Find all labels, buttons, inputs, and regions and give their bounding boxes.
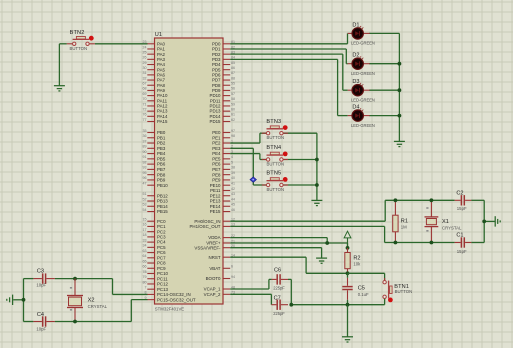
U1 pin PE5 (pin 4)	[212, 155, 233, 161]
svg-text:PE10: PE10	[210, 183, 221, 188]
svg-text:86: 86	[231, 66, 235, 70]
svg-text:PE1: PE1	[212, 135, 221, 140]
svg-text:PE14: PE14	[210, 204, 221, 209]
svg-text:PA15: PA15	[157, 119, 168, 124]
svg-text:96: 96	[143, 176, 147, 180]
wire C5 to bottom rail	[347, 300, 349, 305]
svg-text:33: 33	[143, 238, 147, 242]
U1 pin PC13 (pin 7)	[145, 285, 169, 291]
svg-text:43: 43	[231, 192, 235, 196]
svg-text:VCAP_2: VCAP_2	[204, 292, 221, 297]
svg-text:58: 58	[231, 97, 235, 101]
svg-text:76: 76	[143, 113, 147, 117]
svg-text:62: 62	[231, 118, 235, 122]
U1 pin PC0 (pin 15)	[143, 218, 167, 224]
svg-text:51: 51	[143, 192, 147, 196]
U1 pin PD1 (pin 82)	[212, 45, 235, 51]
svg-text:PE3: PE3	[212, 146, 221, 151]
svg-text:25: 25	[143, 50, 147, 54]
svg-text:PB1: PB1	[157, 135, 166, 140]
U1 pin PB4 (pin 90)	[143, 150, 166, 156]
U1 pin PH1/OSC_OUT (pin 13)	[190, 223, 236, 229]
U1 pin PB6 (pin 92)	[143, 160, 166, 166]
svg-text:C7: C7	[274, 295, 281, 301]
svg-text:55: 55	[231, 82, 235, 86]
U1 pin PC1 (pin 16)	[143, 223, 167, 229]
wire U1 PE4 to BTN4	[230, 154, 266, 160]
U1 pin PB5 (pin 91)	[143, 155, 166, 161]
U1 pin PA14 (pin 76)	[143, 113, 168, 119]
U1 pin PC5 (pin 34)	[143, 244, 167, 250]
svg-text:35: 35	[143, 129, 147, 133]
svg-text:80: 80	[143, 280, 147, 284]
U1 pin PC8 (pin 65)	[143, 259, 167, 265]
wire U1 PD1 to D2	[230, 49, 348, 64]
junction X2 bottom	[73, 320, 77, 324]
push button BTN2	[67, 36, 95, 46]
svg-text:BUTTON: BUTTON	[267, 135, 285, 140]
svg-text:56: 56	[231, 87, 235, 91]
svg-text:68: 68	[143, 87, 147, 91]
U1 pin PB0 (pin 35)	[143, 129, 166, 135]
U1 pin PE15 (pin 46)	[210, 208, 235, 214]
U1 pin PA13 (pin 72)	[143, 107, 168, 113]
wire R2 node to C5	[347, 273, 349, 278]
svg-text:D1: D1	[352, 22, 359, 28]
svg-text:C2: C2	[456, 190, 463, 196]
svg-text:PE2: PE2	[212, 141, 221, 146]
svg-text:D2: D2	[352, 53, 359, 59]
svg-text:PE15: PE15	[210, 209, 221, 214]
svg-text:26: 26	[143, 56, 147, 60]
junction NRST node	[346, 271, 350, 275]
svg-text:LED-GREEN: LED-GREEN	[351, 71, 375, 76]
svg-text:PE0: PE0	[212, 130, 221, 135]
svg-text:PB5: PB5	[157, 156, 166, 161]
svg-text:X1: X1	[442, 219, 449, 225]
U1 pin PE14 (pin 45)	[210, 203, 235, 209]
U1 pin PE10 (pin 41)	[210, 182, 235, 188]
svg-text:C6: C6	[274, 267, 281, 273]
U1 pin PA3 (pin 26)	[143, 56, 166, 62]
junction C7 right rail	[289, 303, 293, 307]
svg-text:PB7: PB7	[157, 167, 166, 172]
U1 pin PA0 (pin 23)	[143, 40, 166, 46]
wire bottom rail	[291, 304, 384, 306]
junction R1 bottom	[394, 241, 398, 245]
svg-text:32: 32	[143, 76, 147, 80]
junction at D2 bus	[398, 62, 402, 66]
svg-text:PB4: PB4	[157, 151, 166, 156]
junction at D4 bus	[398, 114, 402, 118]
U1 pin PC3 (pin 18)	[143, 233, 167, 239]
wire U1 OSC_IN to top rail	[230, 200, 385, 221]
svg-text:PB8: PB8	[157, 172, 166, 177]
svg-text:57: 57	[231, 92, 235, 96]
svg-text:10k: 10k	[353, 262, 361, 267]
wire LED cathode bus	[398, 33, 400, 141]
svg-text:CRYSTAL: CRYSTAL	[88, 304, 108, 309]
LED D1 (LED-GREEN)	[348, 26, 370, 39]
U1 pin PE6 (pin 5)	[212, 160, 233, 166]
wire BTN4 to button bus	[283, 159, 317, 161]
U1 pin PC2 (pin 17)	[143, 228, 167, 234]
svg-text:87: 87	[231, 71, 235, 75]
svg-text:45: 45	[231, 203, 235, 207]
svg-text:97: 97	[231, 129, 235, 133]
svg-text:41: 41	[231, 182, 235, 186]
svg-text:BOOT0: BOOT0	[206, 276, 221, 281]
junction at D3 bus	[398, 88, 402, 92]
svg-text:24: 24	[143, 45, 147, 49]
U1 pin PB12 (pin 51)	[143, 192, 169, 198]
U1 pin PB8 (pin 95)	[143, 171, 166, 177]
LED D4 (LED-GREEN)	[348, 108, 370, 121]
wire C3 to X2 top	[55, 278, 113, 280]
svg-text:NRST: NRST	[209, 255, 221, 260]
ground for BTN2	[54, 86, 65, 91]
svg-text:LED-GREEN: LED-GREEN	[351, 41, 375, 46]
U1 pin PB14 (pin 53)	[143, 203, 169, 209]
wire C2 to right vertical	[471, 199, 484, 201]
wire BTN2 ground vertical	[58, 44, 60, 86]
U1 pin PC15-OSC32_OUT (pin 9)	[145, 296, 196, 302]
wire bottom rail to C1	[385, 242, 455, 244]
svg-text:53: 53	[143, 203, 147, 207]
svg-text:38: 38	[231, 166, 235, 170]
wire U1 PE2 to BTN3	[230, 133, 266, 143]
wire D4 to cathode bus	[369, 115, 399, 117]
svg-text:0.1uF: 0.1uF	[358, 292, 369, 297]
svg-text:16: 16	[143, 223, 147, 227]
wire U1 NRST to R2 bottom	[230, 257, 347, 273]
U1 pin PA9 (pin 68)	[143, 87, 166, 93]
U1 pin PB15 (pin 54)	[143, 208, 169, 214]
svg-text:PD15: PD15	[210, 119, 222, 124]
U1 pin NRST (pin 14)	[209, 254, 235, 260]
svg-text:PE8: PE8	[212, 172, 221, 177]
svg-text:40: 40	[231, 176, 235, 180]
wire U1 VCAP_2 to C7	[230, 294, 271, 304]
svg-text:VBAT: VBAT	[209, 266, 220, 271]
svg-text:31: 31	[143, 71, 147, 75]
capacitor C4	[33, 316, 55, 326]
wire right vertical to ground	[484, 220, 495, 222]
crystal X2	[67, 279, 83, 322]
svg-text:VSSA/VREF-: VSSA/VREF-	[194, 245, 221, 250]
svg-text:PB3: PB3	[157, 146, 166, 151]
svg-text:C5: C5	[358, 285, 365, 291]
svg-text:15: 15	[143, 218, 147, 222]
svg-text:5: 5	[231, 160, 233, 164]
U1 pin PD3 (pin 84)	[212, 56, 235, 62]
push button BTN1 vertical	[383, 278, 393, 302]
svg-text:VDDA: VDDA	[208, 235, 220, 240]
U1 pin PA10 (pin 69)	[143, 92, 168, 98]
U1 pin PA1 (pin 24)	[143, 45, 166, 51]
svg-text:66: 66	[143, 265, 147, 269]
svg-text:BTN4: BTN4	[266, 145, 281, 151]
svg-text:52: 52	[143, 197, 147, 201]
U1 pin PA11 (pin 70)	[143, 97, 168, 103]
U1 pin PD7 (pin 88)	[212, 76, 235, 82]
wire button ground bus	[316, 133, 318, 200]
junction R2 top	[346, 246, 350, 250]
wire U1 VREF+ to power node	[230, 243, 347, 248]
U1 pin VSSA/VREF- (pin 20)	[194, 244, 235, 250]
svg-text:PB9: PB9	[157, 178, 166, 183]
U1 pin PA8 (pin 67)	[143, 82, 166, 88]
svg-text:69: 69	[143, 92, 147, 96]
U1 pin VCAP_1 (pin 48)	[204, 285, 235, 291]
U1 pin PA6 (pin 31)	[143, 71, 166, 77]
svg-text:79: 79	[143, 275, 147, 279]
svg-text:PB0: PB0	[157, 130, 166, 135]
wire U1 VSSA to ground	[230, 248, 321, 258]
U1 pin PE1 (pin 98)	[212, 134, 235, 140]
push button BTN5	[262, 177, 288, 187]
svg-text:64: 64	[143, 254, 147, 258]
U1 pin PB3 (pin 89)	[143, 145, 166, 151]
wire BTN2 to U1 PA0	[95, 43, 148, 45]
wire U1 PD0 to D1	[230, 33, 348, 43]
U1 pin PB1 (pin 36)	[143, 134, 166, 140]
svg-text:PB13: PB13	[157, 199, 168, 204]
svg-text:CRYSTAL: CRYSTAL	[442, 226, 462, 231]
U1 pin PD6 (pin 87)	[212, 71, 235, 77]
svg-text:46: 46	[231, 208, 235, 212]
junction R1 top	[394, 198, 398, 202]
U1 pin PA4 (pin 29)	[143, 61, 166, 67]
svg-text:PE9: PE9	[212, 178, 221, 183]
wire top rail to U1 OSC32_IN	[113, 279, 148, 295]
svg-text:X2: X2	[88, 297, 95, 303]
LED D3 (LED-GREEN)	[348, 83, 370, 96]
U1 pin PB2 (pin 37)	[143, 139, 166, 145]
svg-text:30: 30	[143, 66, 147, 70]
svg-text:C3: C3	[37, 269, 44, 275]
svg-text:LED-GREEN: LED-GREEN	[351, 123, 375, 128]
svg-text:C1: C1	[456, 232, 463, 238]
ground for LED bus	[394, 141, 405, 146]
svg-text:18: 18	[143, 233, 147, 237]
U1 pin PD11 (pin 58)	[210, 97, 235, 103]
svg-text:63: 63	[143, 249, 147, 253]
junction C5 bottom rail	[346, 303, 350, 307]
svg-text:95: 95	[143, 171, 147, 175]
svg-text:15pF: 15pF	[457, 249, 467, 254]
wire top rail to C2	[385, 199, 454, 201]
svg-text:D3: D3	[352, 79, 359, 85]
wire left rail to ground	[13, 299, 23, 301]
U1 pin PB13 (pin 52)	[143, 197, 169, 203]
svg-text:10pF: 10pF	[36, 327, 46, 332]
junction X2 top	[73, 277, 77, 281]
U1 pin PE8 (pin 39)	[212, 171, 235, 177]
svg-text:94: 94	[231, 275, 235, 279]
svg-text:29: 29	[143, 61, 147, 65]
U1 pin PE7 (pin 38)	[212, 166, 235, 172]
wire top rail to C3	[24, 278, 34, 280]
wire BTN3 to button bus	[283, 132, 317, 134]
U1 pin PE9 (pin 40)	[212, 176, 235, 182]
wire BTN1 bottom to rail	[384, 299, 386, 305]
svg-text:PB12: PB12	[157, 193, 168, 198]
svg-text:89: 89	[143, 145, 147, 149]
svg-text:92: 92	[143, 160, 147, 164]
svg-text:PB15: PB15	[157, 209, 168, 214]
svg-text:C4: C4	[37, 312, 44, 318]
svg-text:PB2: PB2	[157, 141, 166, 146]
U1 pin PA5 (pin 30)	[143, 66, 166, 72]
svg-text:59: 59	[231, 102, 235, 106]
junction left ground tap	[22, 298, 26, 302]
svg-text:BTN3: BTN3	[266, 119, 281, 125]
U1 pin PD4 (pin 85)	[212, 61, 235, 67]
svg-text:D4: D4	[352, 105, 359, 111]
svg-text:67: 67	[143, 82, 147, 86]
U1 pin PC11 (pin 79)	[143, 275, 169, 281]
svg-text:91: 91	[143, 155, 147, 159]
svg-text:PE12: PE12	[210, 193, 221, 198]
svg-text:71: 71	[143, 102, 147, 106]
junction at BTN5 bus	[315, 183, 319, 187]
U1 pin PB10 (pin 47)	[143, 182, 169, 188]
svg-text:U1: U1	[155, 32, 162, 38]
svg-text:78: 78	[143, 270, 147, 274]
U1 pin PC7 (pin 64)	[143, 254, 167, 260]
svg-text:VCAP_1: VCAP_1	[204, 287, 221, 292]
svg-text:PE4: PE4	[212, 151, 221, 156]
junction VDDA/VREF+	[325, 241, 329, 245]
U1 pin PA2 (pin 25)	[143, 50, 166, 56]
svg-text:10pF: 10pF	[36, 282, 46, 287]
svg-text:77: 77	[143, 118, 147, 122]
svg-text:6: 6	[231, 265, 233, 269]
svg-text:36: 36	[143, 134, 147, 138]
wire right vertical	[483, 200, 485, 242]
svg-text:93: 93	[143, 166, 147, 170]
U1 pin PA12 (pin 71)	[143, 102, 168, 108]
power terminal arrow VCC	[344, 231, 351, 248]
svg-text:225pF: 225pF	[273, 311, 285, 316]
U1 pin PC9 (pin 66)	[143, 265, 167, 271]
U1 pin PE13 (pin 44)	[210, 197, 235, 203]
svg-text:BUTTON: BUTTON	[267, 187, 285, 192]
U1 pin PD13 (pin 60)	[210, 107, 235, 113]
junction at BTN4 bus	[315, 158, 319, 162]
svg-text:BUTTON: BUTTON	[70, 46, 88, 51]
svg-text:LED-GREEN: LED-GREEN	[351, 98, 375, 103]
svg-text:42: 42	[231, 187, 235, 191]
wire bottom rail to C4	[24, 321, 34, 323]
svg-text:54: 54	[143, 208, 147, 212]
svg-text:47: 47	[143, 182, 147, 186]
push button BTN3	[262, 125, 288, 135]
svg-text:PC15-OSC32_OUT: PC15-OSC32_OUT	[157, 297, 196, 302]
U1 pin VCAP_2 (pin 73)	[204, 291, 235, 297]
resistor R1	[393, 200, 398, 242]
wire bottom rail to U1 OSC32_OUT	[131, 300, 147, 322]
junction X1 bottom	[430, 241, 434, 245]
wire D3 to cathode bus	[369, 89, 399, 91]
ground NRST rail	[342, 337, 353, 342]
junction right vertical ground tap	[482, 220, 486, 224]
U1 pin PC10 (pin 78)	[143, 270, 169, 276]
ground for button bus	[311, 200, 322, 205]
wire BTN2 left to ground drop	[59, 43, 66, 45]
resistor R2	[345, 248, 350, 273]
junction X1 top	[430, 198, 434, 202]
U1 pin PD14 (pin 61)	[210, 113, 235, 119]
svg-text:BUTTON: BUTTON	[267, 161, 285, 166]
U1 pin PE3 (pin 2)	[212, 145, 233, 151]
wire U1 VCAP_1 to C6	[230, 279, 271, 289]
svg-text:PH1/OSC_OUT: PH1/OSC_OUT	[190, 224, 221, 229]
U1 pin PE2 (pin 1)	[212, 139, 233, 145]
U1 pin PB7 (pin 93)	[143, 166, 166, 172]
svg-text:PB14: PB14	[157, 204, 168, 209]
U1 pin PH0/OSC_IN (pin 12)	[194, 218, 235, 224]
U1 pin VREF+ (pin 21)	[206, 239, 235, 245]
svg-text:PE7: PE7	[212, 167, 221, 172]
wire NRST node to BTN1	[348, 273, 385, 280]
wire C4 to X2 bottom	[55, 321, 131, 323]
svg-text:PB6: PB6	[157, 162, 166, 167]
U1 pin PE11 (pin 42)	[210, 187, 235, 193]
microcontroller U1 body	[155, 38, 224, 304]
U1 pin PD2 (pin 83)	[212, 50, 235, 56]
U1 pin PC4 (pin 33)	[143, 238, 167, 244]
svg-text:PE13: PE13	[210, 199, 221, 204]
wire U1 VDDA	[230, 238, 327, 243]
U1 pin PD0 (pin 81)	[212, 40, 235, 46]
U1 pin PD15 (pin 62)	[210, 118, 235, 124]
wire D2 to cathode bus	[369, 63, 399, 65]
LED D2 (LED-GREEN)	[348, 56, 370, 69]
U1 pin PC12 (pin 80)	[143, 280, 169, 286]
svg-text:4: 4	[231, 155, 233, 159]
svg-text:R1: R1	[401, 218, 408, 224]
svg-text:90: 90	[143, 150, 147, 154]
X1 pin marks	[426, 207, 428, 231]
svg-text:R2: R2	[353, 255, 360, 261]
capacitor C6	[272, 274, 288, 284]
U1 pin VBAT (pin 6)	[209, 265, 233, 271]
X2 pin marks	[70, 287, 72, 311]
push button BTN4	[262, 152, 288, 162]
ground VSSA	[316, 258, 327, 263]
svg-text:17: 17	[143, 228, 147, 232]
wire BTN5 to button bus	[283, 184, 317, 186]
wire U1 OSC_OUT to bottom rail	[230, 226, 384, 242]
U1 pin PD9 (pin 56)	[212, 87, 235, 93]
svg-text:225pF: 225pF	[273, 286, 285, 291]
U1 pin PD10 (pin 57)	[210, 92, 235, 98]
svg-text:44: 44	[231, 197, 235, 201]
capacitor C1	[455, 237, 472, 247]
svg-text:70: 70	[143, 97, 147, 101]
svg-text:BTN2: BTN2	[70, 30, 85, 36]
ground right oscillator	[495, 216, 500, 226]
wire left vertical rail	[23, 279, 25, 322]
svg-text:PE6: PE6	[212, 162, 221, 167]
svg-text:15pF: 15pF	[457, 206, 467, 211]
capacitor C7	[271, 300, 288, 310]
U1 pin PA7 (pin 32)	[143, 76, 166, 82]
U1 pin PC14-OSC32_IN (pin 8)	[145, 291, 191, 297]
svg-text:65: 65	[143, 259, 147, 263]
